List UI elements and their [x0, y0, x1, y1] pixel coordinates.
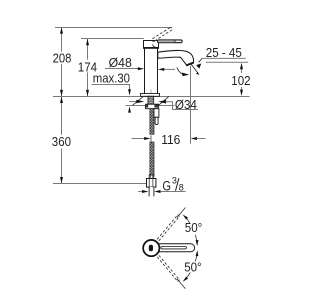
D34 arrows [129, 101, 136, 103]
hose crimp collar [149, 175, 153, 179]
stream swing arrow [177, 67, 182, 74]
flexible hose upper [150, 109, 154, 135]
top view slot [149, 245, 153, 252]
svg-text:3: 3 [172, 176, 177, 186]
top view lever [159, 244, 195, 252]
aerator face [186, 63, 193, 66]
angle extension line up [177, 208, 185, 218]
max.30 lower arrow [128, 106, 131, 112]
D48 right arrow [158, 68, 164, 71]
countertop surface line [53, 96, 250, 98]
hatch right [159, 96, 169, 105]
svg-text:Ø48: Ø48 [109, 56, 132, 70]
svg-text:208: 208 [53, 52, 72, 66]
dashed lever raised position [152, 27, 172, 41]
countertop bottom line [126, 105, 175, 107]
dimension 102 [241, 69, 243, 73]
svg-text:360: 360 [52, 135, 71, 149]
extension line 174 (cap top) [81, 38, 144, 40]
svg-text:102: 102 [231, 74, 250, 88]
body centerline [150, 90, 152, 94]
flexible hose lower [150, 142, 154, 176]
hatch left [133, 97, 144, 106]
svg-text:50°: 50° [184, 261, 202, 275]
arc down [185, 273, 191, 280]
G3/8 arrows [138, 191, 142, 193]
handle cap [144, 41, 159, 48]
dimension 208 line [61, 28, 63, 52]
spout [158, 50, 194, 65]
extension line 360 bottom [53, 183, 146, 185]
extension line top (208 reference, lever max height) [55, 27, 171, 29]
dashed lever up 50 [157, 215, 179, 241]
connector tube G3/8 [149, 187, 154, 196]
mounting nut [146, 104, 159, 109]
top view: handle circle [143, 240, 159, 256]
faucet body [145, 48, 158, 95]
svg-text:Ø34: Ø34 [175, 98, 197, 112]
leader 25-45 [199, 58, 203, 62]
svg-text:116: 116 [161, 133, 180, 147]
base flange [141, 94, 160, 97]
dimension 174 line [87, 39, 89, 60]
hose hex nut [147, 179, 156, 188]
svg-text:8: 8 [179, 182, 184, 192]
angle extension line down [177, 279, 185, 289]
dashed lever down 50 [157, 255, 179, 281]
side tube [154, 109, 159, 118]
spout outlet extension line [190, 66, 192, 144]
dimension 116 [150, 135, 152, 141]
dimension 360 line [61, 97, 63, 135]
svg-text:50°: 50° [185, 221, 203, 235]
svg-text:max.30: max.30 [93, 72, 130, 86]
stream line 45 [191, 64, 199, 74]
arc up [185, 216, 191, 223]
lever handle [157, 40, 182, 43]
svg-text:G: G [162, 178, 171, 193]
threaded shank [148, 96, 154, 104]
